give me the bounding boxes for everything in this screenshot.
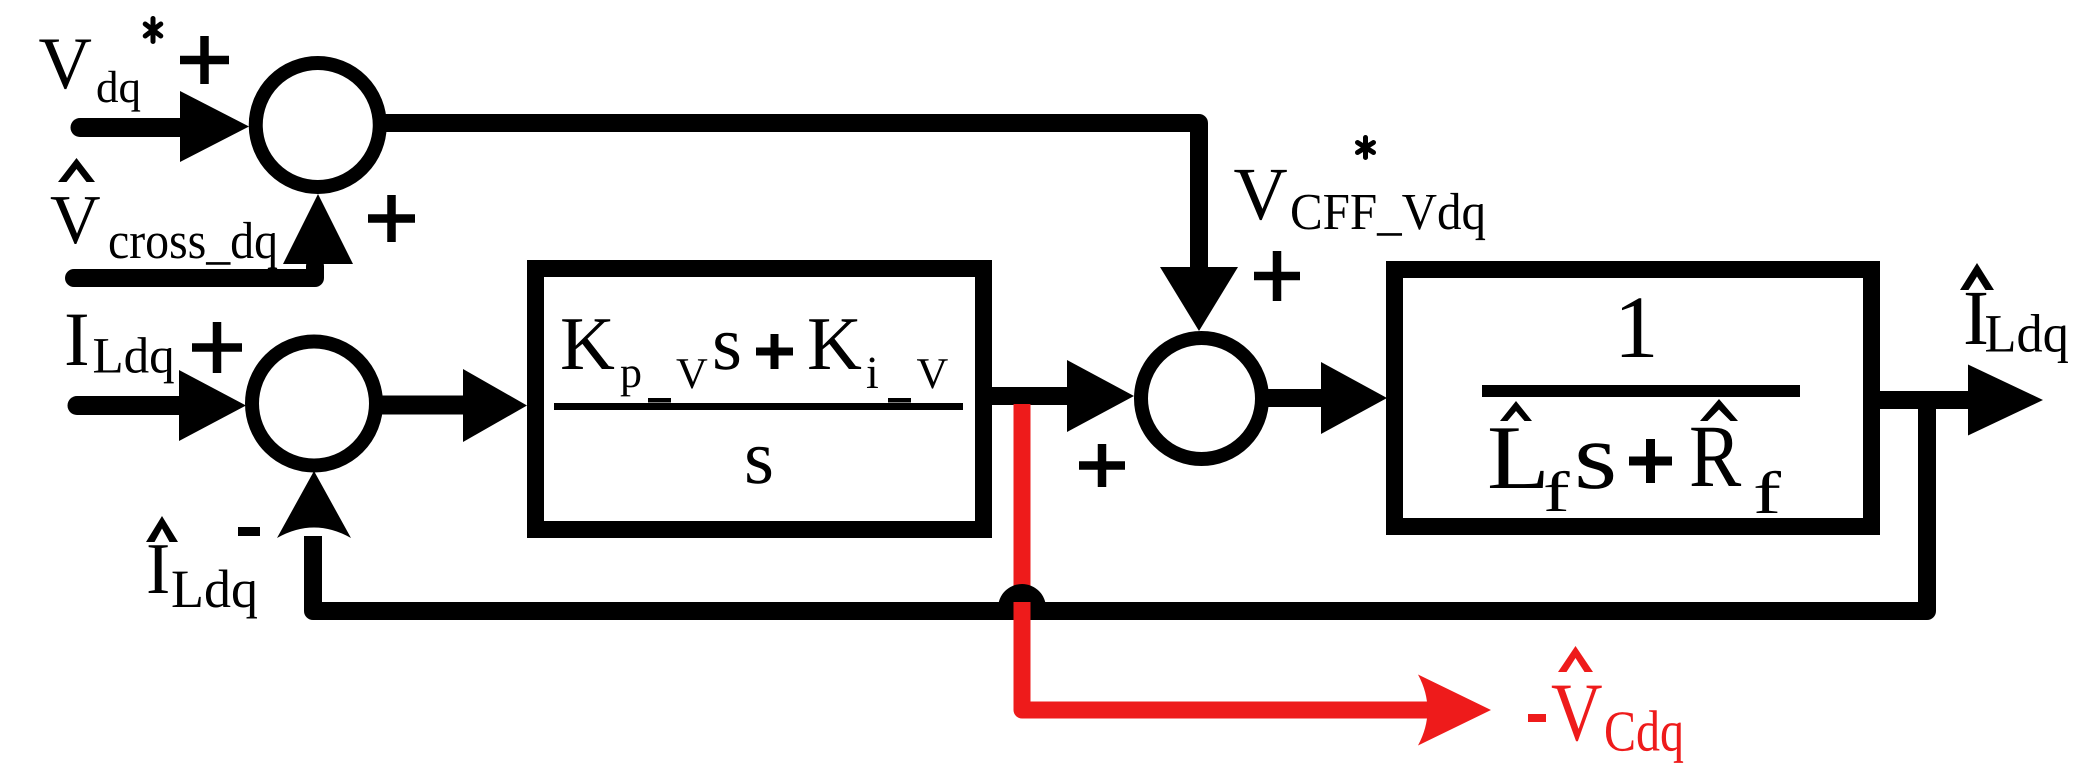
wire S3 to G2 [1262,389,1324,407]
G1 denominator s [747,447,771,484]
block G2 plant box [1395,270,1872,527]
label -VCdq red subscript [1606,710,1683,763]
label Vcross main [51,197,100,244]
label ILdq input subscript [94,337,174,383]
label ILdq-hat output subscript [1986,314,2068,363]
fraction bar G2 [1482,385,1800,397]
fraction bar G1 [554,403,963,410]
arrowhead into G2 [1321,362,1387,434]
summing node S2 [252,342,376,466]
arrowhead feedback up into S2 swallow-tail [277,471,351,538]
arrowhead into G1 [463,369,527,442]
G1 subscript V first [676,359,707,388]
plus sign at S1 left input [180,36,229,84]
plus sign at S3 left input [1079,444,1125,487]
red wire crossing over black feedback line [1014,602,1031,620]
label Vdq subscript [98,71,141,112]
label ILdq-hat output main [1966,293,1986,344]
G2 denominator R [1691,428,1741,486]
underscore in G1 subscript i_V [888,398,911,403]
summing node S1 [256,63,380,187]
G2 denominator L [1490,428,1544,488]
block G1 PI controller box [536,269,984,530]
wire feedback loop [313,402,1927,611]
G2 subscript f second [1756,471,1781,513]
wire input Vdq [80,118,185,137]
plus sign at S3 top input [1254,251,1300,301]
arrowhead up into S1 [283,194,353,264]
underscore in G1 subscript p_V [648,398,671,403]
arrowhead down into summing node S3 [1160,267,1238,331]
wire S2 to G1 [378,396,466,415]
wire G1 to S3 [992,387,1070,405]
G2 subscript f first [1545,471,1569,511]
minus sign of red -VCdq label [1528,714,1546,722]
G1 subscript i [867,358,878,388]
label ILdq input main [67,315,87,365]
wire G2 output [1880,391,1970,409]
hat accent of red -VCdq label [1558,646,1593,672]
summing node S3 [1141,338,1262,459]
plus sign in G1 numerator [756,334,793,369]
arrowhead into S3 [1067,360,1134,432]
label ILdq-hat feedback main [149,545,168,593]
wire Vcross_dq input [74,266,315,278]
arrowhead red -VCdq swallow-tail [1418,675,1491,746]
wire red -VCdq branch [1022,404,1432,710]
asterisk superscript of Vdq [145,19,161,42]
arrowhead into summing node S1 [180,91,249,162]
asterisk superscript of VCFF_Vdq [1358,138,1374,158]
hat accent of ILdq-hat output [1960,263,1994,290]
wire S1 to S3 top feedforward [383,123,1199,272]
hat accent over L in G2 [1500,401,1532,421]
hat accent of Vcross_dq [58,158,95,182]
minus sign at S2 bottom input [238,527,260,536]
plus sign in G2 denominator [1629,439,1672,483]
plus sign at S2 left input [192,322,242,373]
G1 numerator K first [562,319,614,369]
G1 numerator s [715,333,739,370]
G1 subscript p [621,366,641,396]
label Vcross subscript [110,222,277,269]
label ILdq-hat feedback subscript [173,570,257,619]
G1 subscript V second [917,359,948,388]
G2 numerator 1 [1622,298,1653,357]
plus sign at S1 bottom input [368,195,415,242]
label VCFF subscript [1292,193,1485,240]
G1 numerator K second [809,319,861,369]
hat accent of ILdq-hat feedback [146,516,178,542]
wire input ILdq [77,396,182,415]
label Vdq main [39,40,91,90]
hat accent over R in G2 [1700,399,1738,421]
arrowhead into summing node S2 [179,370,246,441]
label -VCdq red main [1552,686,1602,742]
junction hop over red wire [998,584,1046,608]
arrowhead output ILdq-hat [1968,365,2043,436]
G2 denominator s [1579,443,1614,489]
label VCFF main [1234,170,1286,220]
